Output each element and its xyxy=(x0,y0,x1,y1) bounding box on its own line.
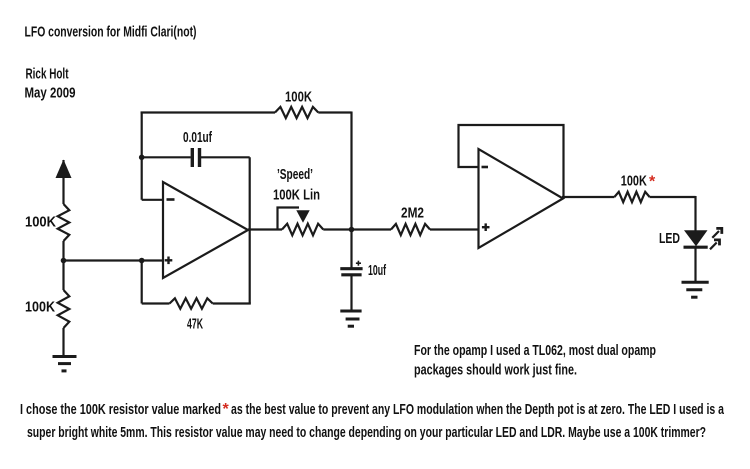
wire U1 output down to 47K xyxy=(249,230,251,304)
svg-text:0.01uf: 0.01uf xyxy=(183,129,213,146)
resistor R6 100K* xyxy=(614,192,649,202)
ground (left divider) xyxy=(53,355,77,358)
op-amp U1 xyxy=(163,182,248,278)
potentiometer VR1 Speed 100K Lin track xyxy=(282,224,323,236)
svg-text:I chose the 100K resistor valu: I chose the 100K resistor value marked xyxy=(20,401,221,418)
svg-text:Rick Holt: Rick Holt xyxy=(26,66,69,83)
wire down to LED xyxy=(694,196,696,231)
wire pot to node D xyxy=(323,228,351,230)
capacitor C1 0.01uf xyxy=(191,148,194,167)
wire node D to R5 xyxy=(352,228,392,230)
svg-text:*: * xyxy=(223,401,230,418)
resistor R4 47K xyxy=(170,298,213,308)
svg-text:100K Lin: 100K Lin xyxy=(273,187,320,204)
LED emission arrow 2 xyxy=(710,243,717,250)
svg-text:100K: 100K xyxy=(285,89,312,106)
resistor R2 100K (lower divider) xyxy=(58,290,70,328)
node B junction dot (47K tap) xyxy=(139,258,145,264)
svg-text:LED: LED xyxy=(659,230,680,247)
svg-text:’Speed’: ’Speed’ xyxy=(277,166,313,183)
wire U1 inverting input xyxy=(142,199,163,201)
U2 feedback wire xyxy=(459,125,564,199)
resistor R1 100K (upper divider) xyxy=(58,204,70,241)
U2 non-inverting input + sign xyxy=(482,226,490,228)
svg-text:100K: 100K xyxy=(25,299,55,316)
wire 47K left xyxy=(142,302,170,304)
wire R1 to node A xyxy=(62,241,64,261)
node C junction dot (cap tap) xyxy=(139,155,145,161)
wire cap left xyxy=(142,156,191,158)
capacitor C2 10uf xyxy=(340,267,362,270)
U1 inverting input - sign xyxy=(167,198,175,201)
wire cap to U1 output xyxy=(249,157,251,230)
svg-text:May 2009: May 2009 xyxy=(25,85,76,102)
wire R5 to U2 non-inverting input xyxy=(430,228,479,230)
op-amp U2 xyxy=(479,149,564,248)
LED D1 xyxy=(684,230,708,246)
svg-text:*: * xyxy=(649,174,656,191)
wire inverting node vertical xyxy=(141,112,143,200)
wire node A to U1 non-inverting input xyxy=(64,259,164,261)
wire node D down to C2 xyxy=(350,230,352,268)
svg-text:2M2: 2M2 xyxy=(401,205,424,222)
wire C2 to ground xyxy=(350,275,352,310)
wire U1 output xyxy=(248,228,282,230)
LED emission arrow 1 xyxy=(712,231,719,238)
resistor R5 2M2 xyxy=(391,224,430,235)
wire top feedback down to node D xyxy=(350,112,352,230)
wire U2 output xyxy=(562,196,614,198)
node D junction dot xyxy=(349,227,355,233)
ground (LED) xyxy=(682,281,709,284)
node A junction dot xyxy=(61,258,67,264)
VR1 wiper link xyxy=(278,208,300,230)
wire R6 right xyxy=(650,196,696,198)
wire top feedback right xyxy=(318,111,351,113)
resistor R3 100K (feedback) xyxy=(275,107,318,118)
wire node B down xyxy=(141,261,143,304)
C2 plus sign xyxy=(356,262,361,264)
svg-text:47K: 47K xyxy=(187,316,203,333)
svg-text:super bright white 5mm. This: super bright white 5mm. This resistor va… xyxy=(27,424,706,441)
wire R2 to ground xyxy=(62,328,64,356)
wire top feedback left xyxy=(141,111,275,113)
svg-text:packages should work just fine: packages should work just fine. xyxy=(414,362,577,379)
wire LED to ground xyxy=(694,248,696,281)
U1 non-inverting input + sign xyxy=(165,259,173,261)
wire node A to R2 xyxy=(62,261,64,291)
svg-text:100K: 100K xyxy=(25,214,56,231)
wire cap right xyxy=(201,156,250,158)
wire arrow to R1 xyxy=(62,177,64,204)
svg-text:100K: 100K xyxy=(621,173,647,190)
U2 inverting input - sign xyxy=(482,166,489,169)
wire 47K right xyxy=(213,302,251,304)
svg-text:as the best value to prevent a: as the best value to prevent any LFO mod… xyxy=(231,401,724,418)
VR1 wiper arrow xyxy=(296,210,309,223)
ground (C2) xyxy=(340,310,361,313)
V+ supply arrow xyxy=(62,160,64,177)
svg-text:LFO conversion for Midfi Clari: LFO conversion for Midfi Clari(not) xyxy=(25,24,197,41)
svg-text:10uf: 10uf xyxy=(368,262,387,279)
svg-text:For the opamp I used a TL062,: For the opamp I used a TL062, most dual … xyxy=(414,342,656,359)
